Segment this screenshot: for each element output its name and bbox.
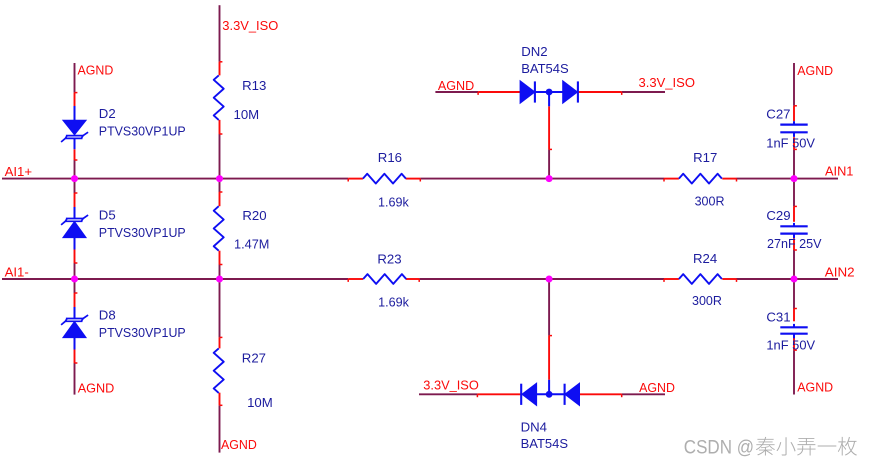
svg-text:AGND: AGND: [78, 380, 115, 395]
svg-text:AIN1: AIN1: [825, 164, 853, 179]
svg-text:PTVS30VP1UP: PTVS30VP1UP: [99, 325, 186, 340]
svg-text:1nF 50V: 1nF 50V: [766, 338, 815, 353]
svg-text:C29: C29: [766, 208, 790, 223]
svg-text:R16: R16: [378, 150, 402, 165]
svg-text:AGND: AGND: [438, 78, 474, 93]
svg-text:R17: R17: [693, 150, 717, 165]
svg-text:R13: R13: [242, 78, 266, 93]
svg-text:AI1+: AI1+: [5, 164, 33, 179]
svg-text:300R: 300R: [695, 194, 725, 209]
svg-text:AGND: AGND: [639, 380, 675, 395]
svg-text:3.3V_ISO: 3.3V_ISO: [222, 18, 278, 33]
svg-text:AIN2: AIN2: [825, 265, 855, 280]
svg-text:27nF 25V: 27nF 25V: [767, 236, 822, 251]
svg-text:R27: R27: [242, 351, 266, 366]
svg-text:R23: R23: [377, 252, 401, 267]
svg-text:R24: R24: [693, 251, 717, 266]
svg-text:1nF 50V: 1nF 50V: [766, 135, 815, 150]
svg-text:D8: D8: [99, 308, 116, 323]
svg-text:AGND: AGND: [797, 380, 833, 395]
svg-text:PTVS30VP1UP: PTVS30VP1UP: [99, 225, 186, 240]
svg-text:300R: 300R: [692, 293, 722, 308]
svg-text:PTVS30VP1UP: PTVS30VP1UP: [99, 124, 186, 139]
svg-text:3.3V_ISO: 3.3V_ISO: [639, 75, 696, 90]
svg-text:1.47M: 1.47M: [234, 237, 269, 252]
svg-text:C31: C31: [766, 309, 790, 324]
svg-text:10M: 10M: [234, 107, 260, 122]
svg-text:1.69k: 1.69k: [378, 294, 409, 309]
svg-text:10M: 10M: [247, 395, 273, 410]
svg-text:DN2: DN2: [521, 44, 547, 59]
svg-text:1.69k: 1.69k: [378, 194, 409, 209]
svg-text:AGND: AGND: [78, 63, 114, 78]
svg-text:AGND: AGND: [221, 437, 257, 452]
svg-text:CSDN @: CSDN @: [684, 436, 754, 458]
svg-text:D2: D2: [99, 106, 116, 121]
svg-text:3.3V_ISO: 3.3V_ISO: [423, 377, 479, 392]
svg-text:D5: D5: [99, 208, 116, 223]
svg-text:AGND: AGND: [797, 63, 833, 78]
svg-text:R20: R20: [242, 208, 266, 223]
svg-text:AI1-: AI1-: [5, 264, 29, 279]
svg-text:DN4: DN4: [521, 420, 547, 435]
svg-text:BAT54S: BAT54S: [521, 436, 569, 451]
svg-text:BAT54S: BAT54S: [521, 61, 569, 76]
svg-text:C27: C27: [766, 107, 790, 122]
